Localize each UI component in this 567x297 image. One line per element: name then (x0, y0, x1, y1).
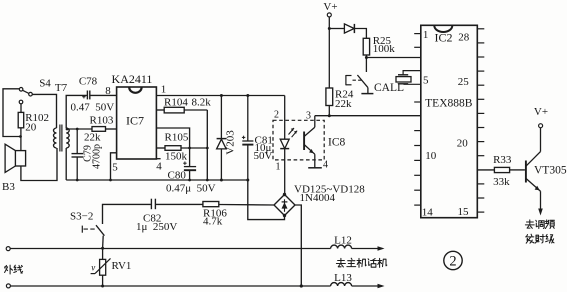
ceramic resonator (396, 71, 421, 85)
IC IC2 TEX888B (421, 25, 478, 218)
wire: speaker to T7 primary bottom (21, 148, 57, 181)
transistor VT305 (526, 128, 567, 216)
svg-text:5: 5 (423, 74, 429, 86)
capacitor C78 0.47 50V (71, 76, 115, 114)
resistor R103 22k (66, 115, 117, 144)
svg-text:10: 10 (425, 150, 437, 162)
svg-text:150k: 150k (165, 150, 188, 162)
wire: IC8/R24 node line to IC2 (315, 115, 421, 117)
wire: V+ down through R24 branch (328, 17, 330, 88)
svg-text:14: 14 (422, 206, 434, 218)
svg-text:RV1: RV1 (112, 260, 132, 272)
svg-text:25: 25 (458, 76, 470, 88)
resistor R24 22k (326, 88, 354, 116)
inductor L13 (331, 272, 353, 286)
capacitor C81 10u 50V (242, 94, 273, 182)
external line terminal 2 (6, 284, 10, 288)
svg-text:0.47μ 50V: 0.47μ 50V (166, 183, 216, 195)
resistor R105 150k (156, 132, 208, 163)
svg-text:V+: V+ (534, 106, 548, 118)
wire: L12 to arrow (352, 248, 378, 250)
wire: C78 to IC7 pin 8 (90, 94, 117, 96)
circled number 2 (444, 251, 462, 269)
svg-text:0.47 50V: 0.47 50V (71, 102, 115, 114)
capacitor C80 0.47u 50V (166, 148, 216, 195)
svg-text:4700p: 4700p (92, 144, 103, 169)
svg-text:V203: V203 (225, 130, 237, 155)
op-amp IC7 KA2411 (112, 72, 157, 159)
wire: hook branch to C82 (103, 204, 151, 224)
resistor R33 33k (493, 154, 525, 188)
LED of IC8 (280, 96, 297, 195)
svg-text:4: 4 (323, 160, 328, 171)
wire: bridge right vertex down to line 2 (295, 205, 301, 286)
wire: T7 secondary top to C78 (66, 95, 87, 128)
svg-text:4: 4 (156, 161, 162, 173)
svg-text:4.7k: 4.7k (203, 216, 223, 228)
zener diode V203 (217, 94, 237, 182)
capacitor C82 1u 250V (136, 199, 203, 233)
svg-text:VT305: VT305 (534, 164, 567, 176)
wire/line 1 with coil L12 (10, 248, 330, 250)
inductor L12 (331, 235, 352, 249)
wire: R25 to IC2 (366, 57, 420, 59)
svg-text:8.2k: 8.2k (192, 96, 212, 108)
external line terminal 1 (6, 247, 10, 251)
svg-text:T7: T7 (55, 82, 68, 94)
svg-text:V+: V+ (323, 1, 337, 13)
wire: left rail from S4 down to R102/speaker branch (3, 89, 21, 137)
transformer T7 (54, 82, 70, 152)
svg-text:2: 2 (274, 110, 279, 121)
switch S3-2 (70, 211, 104, 249)
varistor RV1 (91, 247, 132, 288)
wire: IC2 to R33 (477, 169, 494, 171)
pin 4 stub (156, 158, 160, 160)
svg-text:15: 15 (458, 206, 470, 218)
svg-text:R105: R105 (165, 132, 189, 144)
svg-text:v: v (91, 262, 95, 272)
svg-text:TEX888B: TEX888B (425, 97, 473, 109)
svg-text:L12: L12 (334, 235, 352, 247)
svg-text:22k: 22k (335, 98, 352, 110)
resistor R25 100k (363, 35, 395, 58)
svg-text:L13: L13 (334, 272, 352, 284)
svg-text:KA2411: KA2411 (112, 72, 153, 86)
svg-text:3: 3 (306, 111, 311, 122)
label: external line (Chinese) (5, 265, 23, 274)
svg-text:1: 1 (276, 162, 281, 173)
svg-text:28: 28 (458, 31, 470, 43)
IC2 right pin stubs (477, 29, 484, 212)
svg-text:S3−2: S3−2 (70, 211, 93, 223)
svg-text:20: 20 (25, 122, 37, 134)
svg-text:R33: R33 (493, 154, 512, 166)
diode (V+ to R25) (329, 24, 366, 38)
wire/line 2 with coil L13 (10, 285, 330, 287)
svg-text:C80: C80 (168, 170, 187, 182)
svg-text:IC2: IC2 (435, 30, 453, 44)
wire: L13 to arrow (352, 285, 378, 287)
wire: T7 secondary bottom to ground rail (65, 148, 67, 180)
svg-text:C78: C78 (79, 76, 98, 88)
resistor R106 4.7k (203, 202, 274, 228)
svg-text:R103: R103 (90, 115, 114, 127)
V+ terminal (right) (534, 106, 548, 128)
label: to FM transmitter stage (Chinese) (525, 220, 554, 243)
capacitor C79 4700p (72, 128, 103, 182)
phototransistor of IC8 (304, 116, 322, 168)
resistor R104 8.2k (156, 96, 211, 113)
wire: pin1 output rail (156, 95, 284, 97)
V+ terminal (top) (323, 1, 337, 17)
bridge rectifier VD125~VD128 1N4004 (274, 183, 365, 217)
wire: IC7 feedback loop to C80 node (156, 128, 189, 148)
speaker B3 (2, 144, 26, 193)
svg-text:R104: R104 (164, 96, 188, 108)
switch S4 (19, 78, 51, 96)
svg-text:1: 1 (161, 84, 167, 96)
wire: R104 output down to ground rail (206, 110, 208, 180)
svg-text:IC7: IC7 (126, 114, 144, 128)
svg-text:5: 5 (112, 162, 118, 174)
label: to main phone (Chinese) (336, 258, 386, 267)
svg-text:2: 2 (449, 254, 456, 270)
wire: IC7 pin5 to ground rail (111, 153, 117, 180)
svg-text:33k: 33k (493, 176, 510, 188)
IC2 left pin stubs (414, 34, 421, 206)
svg-text:S4: S4 (39, 78, 51, 90)
svg-text:50V: 50V (254, 150, 273, 162)
svg-text:22k: 22k (84, 132, 101, 144)
svg-text:20: 20 (457, 137, 469, 149)
svg-text:1: 1 (423, 29, 429, 41)
svg-text:100k: 100k (373, 43, 396, 55)
resistor R102 (18, 100, 49, 150)
svg-text:1μ 250V: 1μ 250V (136, 221, 177, 233)
svg-text:8: 8 (105, 85, 111, 97)
svg-text:1N4004: 1N4004 (300, 192, 336, 204)
wire: S4 to T7 primary (32, 94, 56, 128)
ground rail (secondary circuit common) (66, 179, 248, 181)
node: junction left rail / speaker branch (19, 135, 22, 138)
wire: C81 bottom corner to bridge bottom vertex (248, 180, 285, 220)
svg-text:B3: B3 (2, 181, 15, 193)
pushbutton CALL (346, 58, 404, 94)
svg-text:IC8: IC8 (328, 137, 346, 149)
optocoupler IC8 dashed box (273, 120, 324, 160)
